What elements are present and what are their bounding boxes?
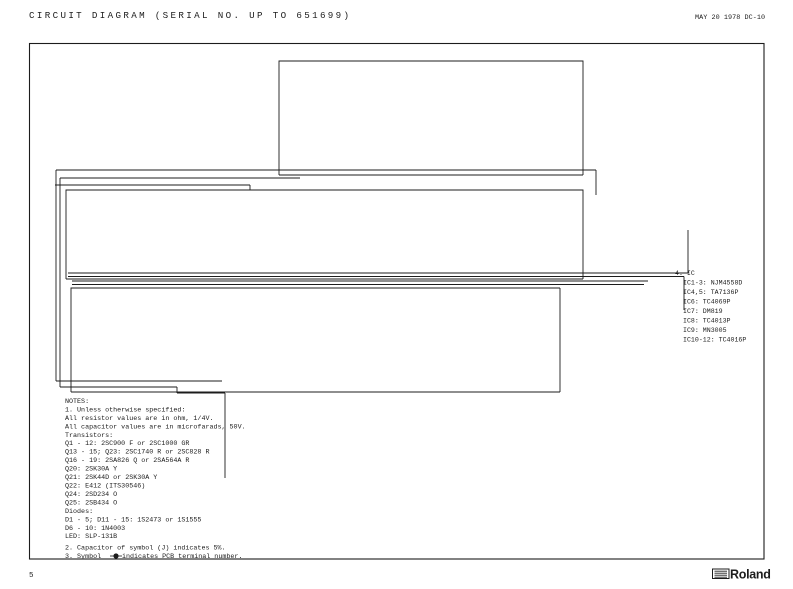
svg-text:Transistors:: Transistors: — [65, 432, 113, 440]
svg-text:5: 5 — [29, 572, 34, 580]
wire — [176, 387, 178, 393]
bus wire — [71, 391, 560, 393]
svg-text:IC8: TC4013P: IC8: TC4013P — [683, 318, 731, 325]
bus wire — [60, 386, 177, 388]
wire — [559, 288, 561, 392]
svg-text:indicates PCB terminal number.: indicates PCB terminal number. — [122, 553, 242, 561]
svg-text:CIRCUIT DIAGRAM (SERIAL NO. UP: CIRCUIT DIAGRAM (SERIAL NO. UP TO 651699… — [29, 10, 351, 21]
wire — [683, 277, 685, 311]
svg-text:Q25: 2SB434 O: Q25: 2SB434 O — [65, 499, 117, 507]
svg-text:IC7: DM819: IC7: DM819 — [683, 308, 723, 315]
svg-text:3. Symbol: 3. Symbol — [65, 553, 101, 561]
bus wire — [68, 272, 688, 274]
IC parts list — [675, 270, 746, 344]
bus wire — [56, 380, 222, 382]
bus wire — [68, 276, 684, 278]
bus wire — [72, 284, 644, 286]
svg-text:Q22: E412 (ITS30546): Q22: E412 (ITS30546) — [65, 483, 145, 491]
bus wire — [56, 169, 596, 171]
svg-text:Diodes:: Diodes: — [65, 508, 93, 516]
bus wire — [55, 184, 250, 186]
bus wire — [279, 174, 583, 176]
stage box FCF — [279, 61, 583, 175]
svg-text:Roland: Roland — [730, 568, 771, 582]
svg-text:IC6: TC4069P: IC6: TC4069P — [683, 299, 731, 306]
svg-text:Q21: 2SK44D or 2SK30A Y: Q21: 2SK44D or 2SK30A Y — [65, 474, 157, 482]
notes block — [65, 398, 246, 561]
svg-text:IC4,5: TA7136P: IC4,5: TA7136P — [683, 289, 738, 296]
bus wire — [72, 280, 648, 282]
bus wire — [55, 170, 57, 381]
svg-text:2. Capacitor of symbol (J) ind: 2. Capacitor of symbol (J) indicates 5%. — [65, 545, 226, 553]
svg-text:All resistor values are in ohm: All resistor values are in ohm, 1/4V. — [65, 415, 214, 423]
svg-text:Q13 - 15; Q23: 2SC1740 R or 2S: Q13 - 15; Q23: 2SC1740 R or 2SC828 R — [65, 449, 209, 457]
bus wire — [60, 177, 300, 179]
stage box row3 — [71, 288, 560, 392]
stage box row2 — [66, 190, 583, 279]
svg-text:NOTES:: NOTES: — [65, 398, 89, 406]
svg-text:IC10-12: TC4016P: IC10-12: TC4016P — [683, 337, 746, 344]
svg-text:IC1-3: NJM4558D: IC1-3: NJM4558D — [683, 280, 742, 287]
svg-text:MAY 20 1978 DC-10: MAY 20 1978 DC-10 — [695, 14, 765, 22]
svg-text:D6 - 10: 1N4003: D6 - 10: 1N4003 — [65, 525, 125, 533]
svg-text:Q1 - 12: 2SC900 F or 2SC1000 G: Q1 - 12: 2SC900 F or 2SC1000 GR — [65, 440, 189, 448]
PCB terminal symbol — [113, 553, 118, 558]
svg-text:LED: SLP-131B: LED: SLP-131B — [65, 533, 117, 541]
svg-text:All capacitor values are in mi: All capacitor values are in microfarads,… — [65, 423, 246, 431]
svg-text:Q24: 2SD234 O: Q24: 2SD234 O — [65, 491, 117, 499]
svg-text:Q16 - 19: 2SA826 Q or 2SA564A: Q16 - 19: 2SA826 Q or 2SA564A R — [65, 457, 189, 465]
Roland logo — [713, 568, 771, 582]
svg-text:1. Unless otherwise specified:: 1. Unless otherwise specified: — [65, 406, 185, 414]
svg-text:D1 - 5; D11 - 15: 1S2473 or 1S: D1 - 5; D11 - 15: 1S2473 or 1S1555 — [65, 516, 201, 524]
wire — [249, 185, 251, 190]
svg-text:Q20: 2SK30A Y: Q20: 2SK30A Y — [65, 466, 117, 474]
bus wire — [66, 278, 583, 280]
wire — [687, 230, 689, 273]
svg-text:IC9: MN3005: IC9: MN3005 — [683, 327, 727, 334]
bus wire — [59, 178, 61, 387]
wire — [595, 170, 597, 195]
wire — [177, 392, 225, 394]
svg-text:4. IC: 4. IC — [675, 270, 695, 277]
wire — [224, 393, 226, 478]
